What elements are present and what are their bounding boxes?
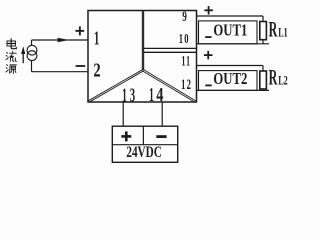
svg-text:10: 10 [179,32,190,47]
svg-text:4: 4 [156,84,163,106]
svg-text:OUT1: OUT1 [213,20,247,39]
svg-text:1: 1 [94,28,99,50]
svg-text:L1: L1 [278,24,287,39]
svg-text:OUT2: OUT2 [213,69,247,88]
svg-text:24VDC: 24VDC [126,144,162,161]
svg-text:9: 9 [182,9,187,25]
svg-text:R: R [269,16,278,41]
svg-text:2: 2 [93,60,100,82]
svg-text:R: R [269,64,278,89]
svg-text:11: 11 [182,53,192,69]
svg-text:3: 3 [130,85,135,107]
svg-text:1: 1 [149,84,154,106]
svg-text:1: 1 [122,85,127,107]
svg-text:L2: L2 [278,72,288,87]
svg-text:12: 12 [181,77,192,93]
